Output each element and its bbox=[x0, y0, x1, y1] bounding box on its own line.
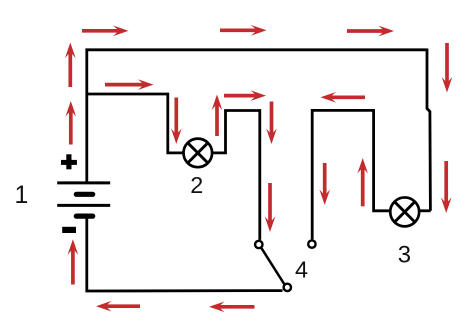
switch S4 blade (open) bbox=[262, 248, 285, 284]
current arrow: lamp 3 left wire, upward bbox=[357, 158, 368, 206]
svg-text:3: 3 bbox=[398, 242, 411, 269]
current arrow: left side above battery, upward bbox=[66, 101, 77, 145]
battery plus polarity mark bbox=[61, 154, 77, 169]
current arrow: toward switch, rightward bbox=[224, 90, 266, 101]
switch S4 right terminal (open contact) bbox=[308, 240, 315, 247]
switch S4 bottom pivot terminal bbox=[284, 284, 291, 291]
battery B1: short thick plate (negative of cell 1) bbox=[76, 192, 92, 197]
current arrow: bottom left, leftward bbox=[96, 301, 140, 312]
current arrow: top-left, rightward bbox=[82, 26, 129, 37]
current arrow: down to switch upper, downward bbox=[266, 102, 277, 145]
wire: battery positive terminal up left side and across top bbox=[87, 50, 427, 184]
current arrow: left side upper, upward bbox=[65, 43, 76, 88]
lamp L3 (circle with X) bbox=[390, 197, 419, 226]
current arrow: right of lamp 3, downward bbox=[441, 161, 452, 213]
current arrow: out of lamp 2, upward bbox=[212, 95, 223, 137]
wire: lamp 3 right lead to right side wire bbox=[419, 209, 431, 212]
battery B1: positive long plate bbox=[57, 181, 110, 184]
current arrow: into lamp 2, downward bbox=[171, 98, 182, 145]
current arrow: right side, downward bbox=[442, 43, 453, 93]
current arrow: bottom middle, leftward bbox=[209, 302, 255, 313]
wire: lamp 2 right lead up and over to switch left terminal bbox=[212, 111, 260, 240]
wire: branch from left wire at node toward lamp 2 bbox=[87, 94, 184, 153]
current arrow: branch toward lamp 2, rightward bbox=[105, 79, 154, 90]
svg-text:1: 1 bbox=[15, 182, 29, 209]
current arrow: left side below battery, upward bbox=[68, 239, 79, 284]
lamp L2 (circle with X) bbox=[184, 139, 213, 168]
svg-text:4: 4 bbox=[295, 257, 308, 283]
wire: right side down from top-right corner to lamp 3 right lead bbox=[427, 49, 430, 211]
switch S4 left terminal bbox=[255, 241, 262, 248]
current arrow: from lamp 3 branch top, leftward bbox=[321, 92, 366, 103]
current arrow: switch right wire, downward bbox=[319, 163, 330, 205]
battery B1: short thick plate (negative of cell 2) bbox=[76, 214, 92, 219]
wire: switch right terminal up, across, and down to lamp 3 left lead bbox=[312, 110, 390, 239]
svg-text:2: 2 bbox=[190, 172, 203, 198]
current arrow: top-middle, rightward bbox=[220, 25, 267, 36]
wire: battery negative terminal down and along bottom to switch bbox=[87, 214, 283, 291]
battery minus polarity mark bbox=[62, 227, 76, 233]
current arrow: down to switch lower, downward bbox=[265, 183, 276, 232]
battery B1: second long plate bbox=[57, 204, 110, 207]
current arrow: top-right, rightward bbox=[347, 26, 394, 37]
